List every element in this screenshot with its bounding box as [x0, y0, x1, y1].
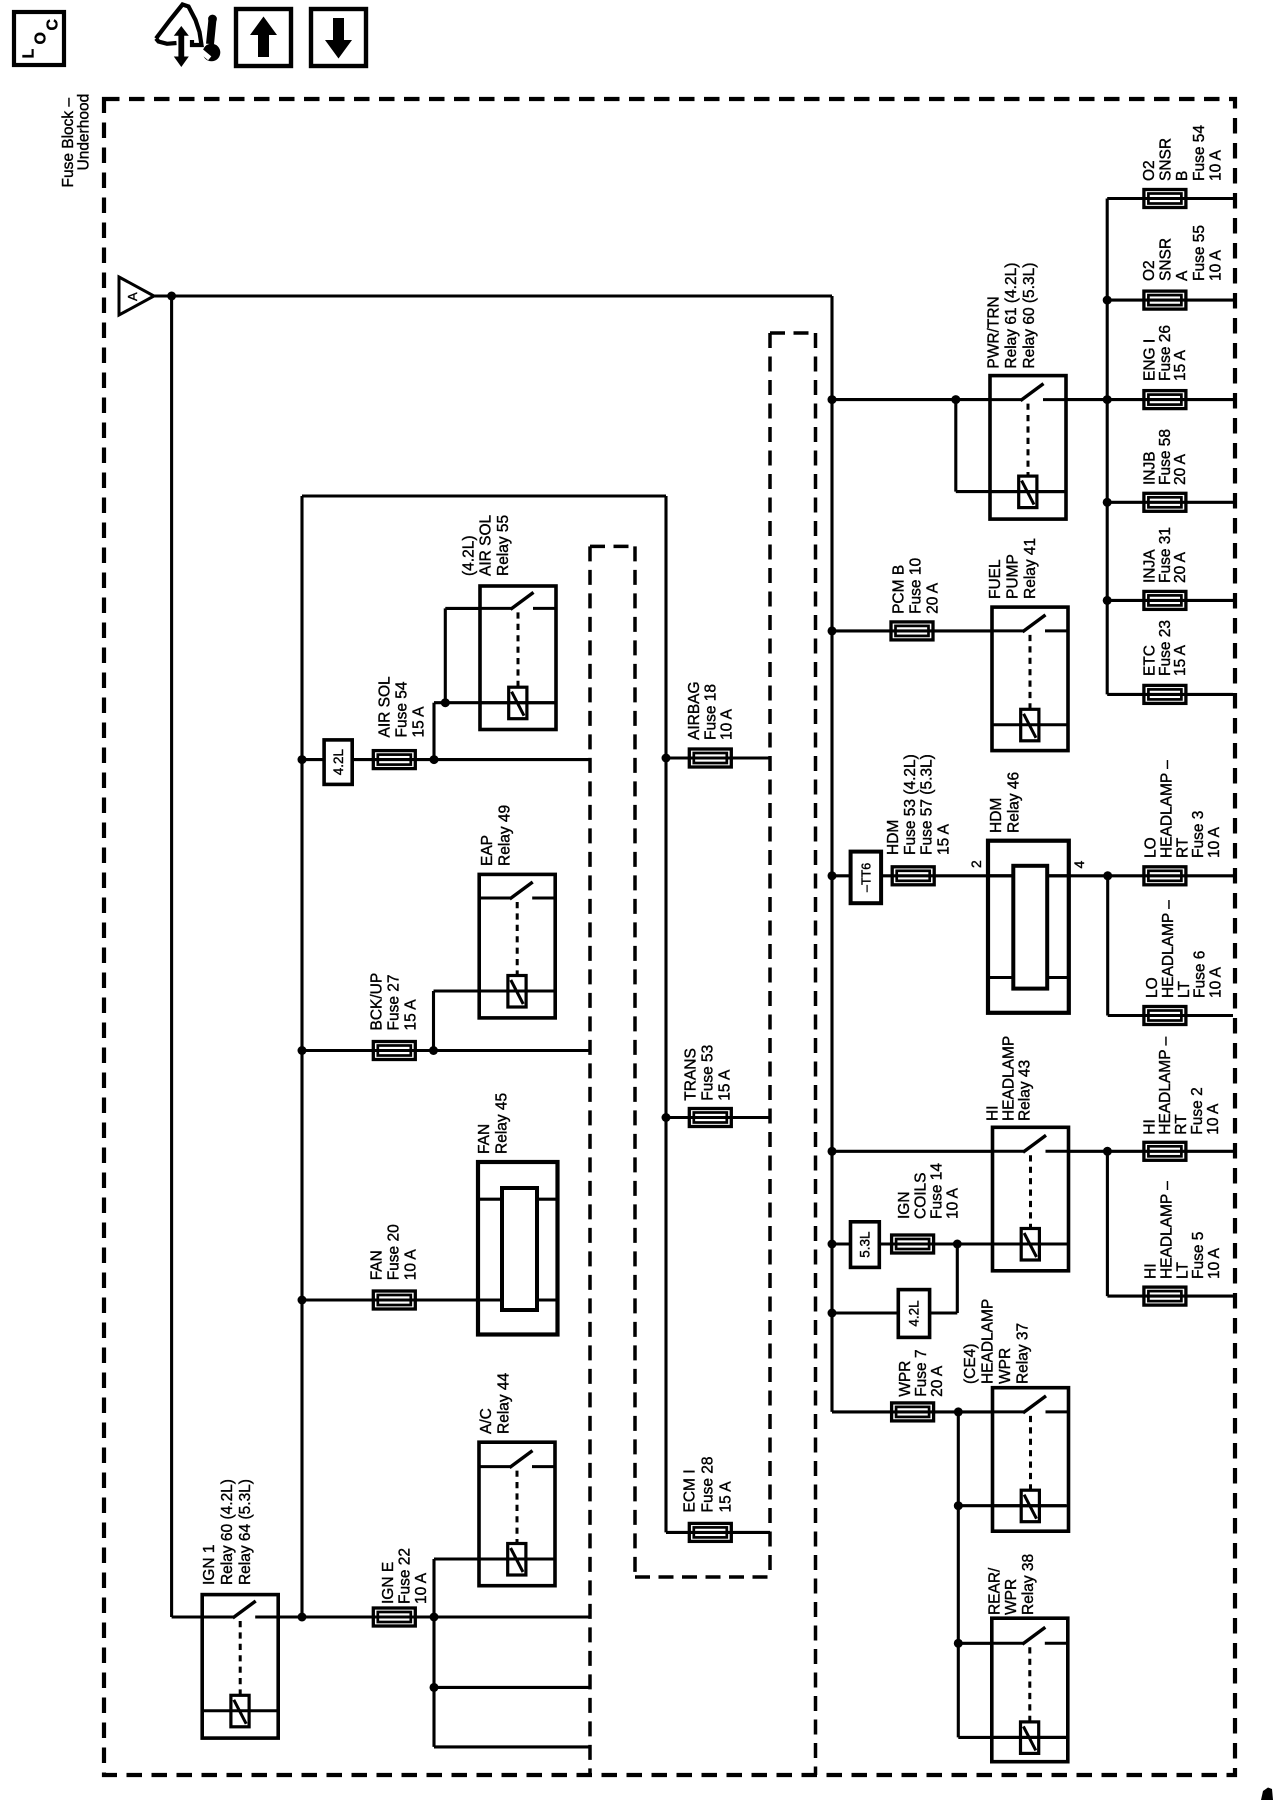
- wire: AIR SOL fuse feed: [302, 758, 590, 761]
- svg-text:FAN: FAN: [476, 1124, 493, 1154]
- svg-text:20 A: 20 A: [1172, 551, 1189, 583]
- node: [954, 1639, 963, 1648]
- svg-text:Fuse 28: Fuse 28: [700, 1456, 717, 1512]
- fuse ECM I Fuse 28: [689, 1523, 731, 1541]
- svg-text:TRANS: TRANS: [683, 1048, 700, 1101]
- svg-text:A/C: A/C: [478, 1408, 495, 1434]
- node: [662, 754, 671, 763]
- wire: EAP relay coil feed: [432, 991, 435, 1051]
- connector triangle A: [119, 277, 154, 315]
- wire: A/C relay coil feed: [432, 1559, 435, 1747]
- label LO HEADLAMP RT fuse: [1143, 760, 1224, 858]
- svg-text:Fuse 6: Fuse 6: [1192, 951, 1209, 998]
- wire: WPR fuse feed: [832, 1410, 993, 1413]
- svg-text:10 A: 10 A: [1208, 966, 1225, 998]
- label REAR/WPR relay: [987, 1554, 1037, 1615]
- fuse ETC Fuse 23: [1144, 685, 1186, 703]
- svg-text:HDM: HDM: [885, 820, 902, 855]
- svg-text:HI: HI: [985, 1106, 1002, 1122]
- svg-text:EAP: EAP: [479, 835, 496, 866]
- label BCK/UP fuse: [368, 973, 419, 1031]
- label INJA fuse: [1142, 527, 1190, 583]
- node: [298, 1613, 307, 1622]
- node: [298, 755, 307, 764]
- svg-text:HEADLAMP: HEADLAMP: [980, 1299, 997, 1384]
- fuse FAN Fuse 20: [373, 1291, 415, 1309]
- wire: HI HEADLAMP LT drop: [1106, 1151, 1109, 1296]
- label HEADLAMP WPR relay: [962, 1299, 1031, 1384]
- engine variant tag 4.2L (coils): [898, 1290, 929, 1338]
- wire: stub to fuse block: [434, 1686, 590, 1689]
- relay IGN 1 Relay 60/64: [202, 1595, 278, 1739]
- svg-text:FAN: FAN: [368, 1250, 385, 1280]
- connector -TT6: [851, 852, 882, 904]
- label EAP relay: [479, 805, 514, 866]
- wire: IGN E fuse feed: [278, 1615, 590, 1618]
- relay EAP Relay 49: [479, 874, 555, 1018]
- relay AIR SOL Relay 55: [480, 586, 556, 730]
- label ENG I fuse: [1142, 325, 1190, 381]
- relay FUEL PUMP Relay 41: [992, 607, 1068, 751]
- svg-text:IGN: IGN: [896, 1191, 913, 1219]
- node: [429, 1046, 438, 1055]
- label WPR fuse: [897, 1349, 946, 1396]
- fuse HI HEADLAMP RT Fuse 2: [1144, 1142, 1186, 1160]
- label PCM B fuse: [891, 558, 942, 614]
- svg-text:B: B: [1174, 171, 1191, 181]
- svg-text:O: O: [33, 32, 50, 44]
- label Fuse Block - Underhood: [60, 94, 93, 188]
- svg-text:15 A: 15 A: [935, 823, 952, 855]
- wire: ETC fuse line: [1107, 693, 1233, 696]
- svg-text:4: 4: [1071, 861, 1087, 869]
- svg-text:10 A: 10 A: [1207, 249, 1224, 281]
- wire: left drop to IGN 1 relay: [170, 296, 173, 1617]
- fuse AIRBAG Fuse 18: [689, 749, 731, 767]
- svg-text:Relay 61 (4.2L): Relay 61 (4.2L): [1003, 263, 1020, 369]
- svg-text:O2: O2: [1141, 160, 1158, 181]
- engine variant tag 4.2L: [324, 740, 352, 785]
- wire: AIRBAG fuse feed: [666, 756, 770, 759]
- svg-text:(CE4): (CE4): [962, 1344, 979, 1384]
- node: [954, 1501, 963, 1510]
- svg-text:10 A: 10 A: [1207, 149, 1224, 181]
- svg-text:Fuse 57 (5.3L): Fuse 57 (5.3L): [919, 754, 936, 855]
- svg-text:Relay 46: Relay 46: [1006, 772, 1023, 833]
- svg-text:Relay 38: Relay 38: [1020, 1554, 1037, 1615]
- svg-text:RT: RT: [1173, 1114, 1190, 1135]
- svg-text:10 A: 10 A: [1206, 826, 1223, 858]
- svg-text:FUEL: FUEL: [987, 559, 1004, 599]
- fuse WPR Fuse 7: [892, 1403, 934, 1421]
- label IGN 1 relay: [201, 1479, 254, 1585]
- svg-text:Fuse Block –: Fuse Block –: [60, 98, 77, 188]
- label O2 SNSR A fuse: [1141, 225, 1224, 281]
- wire: main feed from connector A: [152, 294, 832, 297]
- svg-text:15 A: 15 A: [402, 999, 419, 1031]
- wire: ECM I fuse feed: [666, 1531, 770, 1534]
- wire: right distribution bus (x=832): [830, 296, 833, 1412]
- label HI HEADLAMP RT fuse: [1141, 1036, 1222, 1134]
- node: [1103, 296, 1112, 305]
- scroll up button: [236, 9, 291, 66]
- wire: REAR/WPR relay contact stub: [958, 1642, 992, 1645]
- svg-text:Fuse 22: Fuse 22: [396, 1548, 413, 1604]
- svg-text:10 A: 10 A: [1205, 1103, 1222, 1135]
- label ETC fuse: [1142, 620, 1190, 676]
- LOC button: [14, 12, 64, 65]
- fuse BCK/UP Fuse 27: [373, 1042, 415, 1060]
- node: [828, 1147, 837, 1156]
- wire: BCK/UP fuse feed: [302, 1049, 590, 1052]
- svg-text:WPR: WPR: [997, 1348, 1014, 1384]
- svg-text:Fuse 10: Fuse 10: [908, 558, 925, 614]
- node: [430, 1613, 439, 1622]
- relay HI HEADLAMP Relay 43: [993, 1127, 1069, 1271]
- svg-text:Fuse 54: Fuse 54: [1191, 125, 1208, 181]
- node: [1103, 395, 1112, 404]
- label IGN COILS fuse: [896, 1163, 962, 1219]
- svg-text:–TT6: –TT6: [860, 863, 874, 892]
- wire: HI HEADLAMP relay feed: [832, 1150, 993, 1153]
- svg-text:Fuse 2: Fuse 2: [1189, 1087, 1206, 1134]
- svg-text:IGN E: IGN E: [380, 1562, 397, 1604]
- wire: FAN fuse feed: [302, 1298, 558, 1301]
- fuse HI HEADLAMP LT Fuse 5: [1144, 1287, 1186, 1305]
- svg-text:Relay 64 (5.3L): Relay 64 (5.3L): [237, 1479, 254, 1585]
- node: [298, 1296, 307, 1305]
- svg-text:RT: RT: [1174, 837, 1191, 858]
- svg-text:Fuse 20: Fuse 20: [385, 1224, 402, 1280]
- label HI HEADLAMP relay: [985, 1036, 1034, 1121]
- fuse IGN COILS Fuse 14: [892, 1235, 934, 1253]
- svg-text:Relay 41: Relay 41: [1022, 538, 1039, 599]
- node: [1103, 871, 1112, 880]
- svg-text:BCK/UP: BCK/UP: [368, 973, 385, 1031]
- wire: left distribution box top: [302, 494, 666, 497]
- svg-text:O2: O2: [1141, 260, 1158, 281]
- wire: HEADLAMP WPR relay coil line: [958, 1504, 1066, 1507]
- relay FAN Relay 45: [478, 1162, 558, 1335]
- svg-text:20 A: 20 A: [929, 1365, 946, 1397]
- svg-text:15 A: 15 A: [411, 706, 428, 738]
- svg-text:HEADLAMP –: HEADLAMP –: [1158, 760, 1175, 858]
- svg-text:WPR: WPR: [1003, 1579, 1020, 1615]
- wire: HI HEADLAMP RT fuse line: [1069, 1150, 1234, 1153]
- fuse INJA Fuse 31: [1144, 591, 1186, 609]
- wire: middle distribution bus (x=666): [664, 496, 667, 1532]
- label AIRBAG fuse: [686, 681, 736, 740]
- label HI HEADLAMP LT fuse: [1143, 1181, 1224, 1279]
- svg-text:4.2L: 4.2L: [331, 748, 346, 775]
- svg-text:10 A: 10 A: [945, 1187, 962, 1219]
- node: [298, 1046, 307, 1055]
- fuse PCM B Fuse 10: [891, 622, 933, 640]
- node: [828, 626, 837, 635]
- svg-text:2: 2: [968, 860, 984, 868]
- label PWR/TRN relay: [985, 263, 1037, 369]
- fuse LO HEADLAMP RT Fuse 3: [1144, 867, 1186, 885]
- fuse TRANS Fuse 53: [689, 1109, 731, 1127]
- wire: AIR SOL relay coil feed: [432, 703, 435, 760]
- fuse ENG I Fuse 26: [1144, 391, 1186, 409]
- node: [1103, 596, 1112, 605]
- svg-text:LO: LO: [1144, 977, 1161, 998]
- svg-text:LO: LO: [1143, 837, 1160, 858]
- label FUEL PUMP relay: [987, 538, 1039, 599]
- label AIR SOL fuse: [377, 676, 428, 738]
- wire: 4.2L alternate feed: [832, 1311, 957, 1314]
- wire: PCM B fuse feed: [832, 629, 992, 632]
- scroll down button: [311, 9, 366, 66]
- label FAN relay: [476, 1093, 511, 1154]
- svg-text:Relay 44: Relay 44: [496, 1372, 513, 1434]
- svg-text:SNSR: SNSR: [1158, 238, 1175, 281]
- fuse LO HEADLAMP LT Fuse 6: [1144, 1007, 1186, 1025]
- relay A/C Relay 44: [479, 1442, 555, 1586]
- fuse IGN E Fuse 22: [373, 1608, 415, 1626]
- svg-text:PUMP: PUMP: [1005, 554, 1022, 599]
- svg-text:Fuse 7: Fuse 7: [913, 1349, 930, 1396]
- wire: engine fuse bus (x=1107): [1106, 199, 1109, 695]
- svg-text:HI: HI: [1143, 1264, 1160, 1280]
- label O2 SNSR B fuse: [1141, 125, 1224, 181]
- svg-text:(4.2L): (4.2L): [460, 536, 477, 577]
- node: [953, 1240, 962, 1249]
- svg-text:15 A: 15 A: [1172, 644, 1189, 676]
- svg-text:HDM: HDM: [988, 798, 1005, 833]
- relay HEADLAMP WPR Relay 37: [993, 1388, 1069, 1532]
- engine variant tag 5.3L: [851, 1222, 880, 1268]
- node: [828, 1309, 837, 1318]
- svg-text:LT: LT: [1174, 1262, 1191, 1279]
- node: [954, 1407, 963, 1416]
- fuse block inner dashed boundary: [590, 333, 816, 1775]
- svg-text:HEADLAMP –: HEADLAMP –: [1157, 1036, 1174, 1134]
- svg-text:AIR SOL: AIR SOL: [377, 676, 394, 738]
- svg-text:Relay 43: Relay 43: [1017, 1060, 1034, 1121]
- svg-text:15 A: 15 A: [717, 1069, 734, 1101]
- svg-text:15 A: 15 A: [717, 1481, 734, 1513]
- svg-text:WPR: WPR: [897, 1361, 914, 1397]
- svg-text:Relay 49: Relay 49: [497, 805, 514, 866]
- svg-text:10 A: 10 A: [402, 1249, 419, 1281]
- svg-text:10 A: 10 A: [413, 1572, 430, 1604]
- svg-text:Fuse 18: Fuse 18: [702, 684, 719, 740]
- svg-text:Fuse 54: Fuse 54: [394, 681, 411, 737]
- wire: O2 SNSR A fuse line: [1107, 299, 1233, 302]
- svg-text:HEADLAMP: HEADLAMP: [1001, 1036, 1018, 1121]
- relay REAR/WPR Relay 38: [992, 1618, 1068, 1762]
- svg-text:A: A: [125, 292, 140, 301]
- node: [441, 698, 450, 707]
- svg-text:Fuse 53: Fuse 53: [700, 1045, 717, 1101]
- node: junction on main feed: [167, 292, 176, 301]
- fuse HDM Fuse 53/57: [892, 867, 934, 885]
- wire: wiper relay coil bus: [957, 1412, 960, 1738]
- svg-text:15 A: 15 A: [1172, 349, 1189, 381]
- svg-text:Fuse 53 (4.2L): Fuse 53 (4.2L): [902, 754, 919, 855]
- wire: LO HEADLAMP LT drop: [1106, 876, 1109, 1016]
- adjust/navigate icon (hand with arrows and wrench): [156, 5, 220, 68]
- fuse INJB Fuse 58: [1144, 493, 1186, 511]
- wire: REAR/WPR relay coil line: [958, 1736, 1067, 1739]
- svg-text:REAR/: REAR/: [987, 1567, 1004, 1615]
- wire: AIR SOL relay contact loop: [444, 608, 447, 702]
- svg-text:PCM B: PCM B: [891, 565, 908, 614]
- node: [1103, 1147, 1112, 1156]
- node: [430, 1683, 439, 1692]
- svg-text:HEADLAMP –: HEADLAMP –: [1158, 1181, 1175, 1279]
- label FAN fuse: [368, 1224, 419, 1280]
- svg-text:Relay 45: Relay 45: [494, 1093, 511, 1154]
- svg-text:AIRBAG: AIRBAG: [686, 681, 703, 740]
- svg-text:HEADLAMP –: HEADLAMP –: [1160, 900, 1177, 998]
- svg-text:L: L: [21, 49, 38, 59]
- svg-text:10 A: 10 A: [719, 708, 736, 740]
- label IGN E fuse: [380, 1548, 430, 1604]
- svg-text:A: A: [1174, 270, 1191, 281]
- label AIR SOL relay: [460, 514, 511, 576]
- svg-text:C: C: [45, 19, 62, 31]
- label LO HEADLAMP LT fuse: [1144, 900, 1225, 998]
- wire: INJB fuse line: [1107, 501, 1233, 504]
- svg-text:Fuse 55: Fuse 55: [1191, 225, 1208, 281]
- svg-text:Relay 60 (4.2L): Relay 60 (4.2L): [219, 1479, 236, 1585]
- node: [828, 395, 837, 404]
- fuse O2 SNSR A Fuse 55: [1144, 291, 1186, 309]
- relay HDM Relay 46: [988, 841, 1069, 1013]
- label HDM fuse: [885, 754, 952, 855]
- fuse AIR SOL Fuse 54: [373, 751, 415, 769]
- label HDM relay: [988, 772, 1023, 833]
- node: [430, 755, 439, 764]
- svg-text:Relay 37: Relay 37: [1014, 1323, 1031, 1384]
- svg-text:SNSR: SNSR: [1158, 138, 1175, 181]
- svg-text:Underhood: Underhood: [76, 94, 93, 171]
- page number fragment: [1261, 1788, 1273, 1800]
- wire: stub to fuse block: [434, 1745, 590, 1748]
- label TRANS fuse: [683, 1045, 734, 1101]
- relay PWR/TRN Relay 61/60: [990, 376, 1066, 519]
- svg-text:ECM I: ECM I: [682, 1469, 699, 1512]
- label ECM I fuse: [682, 1456, 735, 1512]
- fuse O2 SNSR B Fuse 54: [1144, 190, 1186, 208]
- node: [1103, 498, 1112, 507]
- label A/C relay: [478, 1372, 513, 1434]
- label INJB fuse: [1142, 429, 1190, 485]
- wire: O2 SNSR B fuse line: [1107, 197, 1233, 200]
- wire: PWR/TRN output to engine fuse bus: [1066, 398, 1233, 401]
- svg-text:COILS: COILS: [912, 1172, 929, 1219]
- node: [828, 1240, 837, 1249]
- svg-text:Relay 55: Relay 55: [495, 515, 512, 576]
- svg-text:LT: LT: [1176, 981, 1193, 998]
- svg-text:4.2L: 4.2L: [907, 1300, 922, 1327]
- node: [951, 395, 960, 404]
- node: [662, 1113, 671, 1122]
- wire: PWR/TRN relay coil feed: [954, 400, 957, 492]
- wire: HDM feed through -TT6: [832, 874, 1233, 877]
- svg-text:20 A: 20 A: [925, 582, 942, 614]
- svg-text:20 A: 20 A: [1172, 453, 1189, 485]
- wire: left distribution bus (x=302): [300, 496, 303, 1617]
- wire: PWR/TRN relay feed: [832, 398, 990, 401]
- wire: IGN COILS fuse feed (5.3L): [832, 1242, 1069, 1245]
- svg-text:IGN 1: IGN 1: [201, 1545, 218, 1585]
- svg-text:Fuse 3: Fuse 3: [1190, 811, 1207, 858]
- svg-text:PWR/TRN: PWR/TRN: [985, 296, 1002, 368]
- svg-text:Fuse 27: Fuse 27: [385, 974, 402, 1030]
- svg-text:Fuse 5: Fuse 5: [1190, 1232, 1207, 1279]
- wire: TRANS fuse feed: [666, 1116, 770, 1119]
- svg-text:5.3L: 5.3L: [858, 1231, 873, 1258]
- svg-text:AIR SOL: AIR SOL: [478, 514, 495, 576]
- svg-text:Fuse 14: Fuse 14: [929, 1163, 946, 1219]
- node: [828, 871, 837, 880]
- svg-text:10 A: 10 A: [1206, 1247, 1223, 1279]
- wire: INJA fuse line: [1107, 599, 1233, 602]
- svg-text:HI: HI: [1141, 1119, 1158, 1135]
- svg-text:Relay 60 (5.3L): Relay 60 (5.3L): [1021, 263, 1038, 369]
